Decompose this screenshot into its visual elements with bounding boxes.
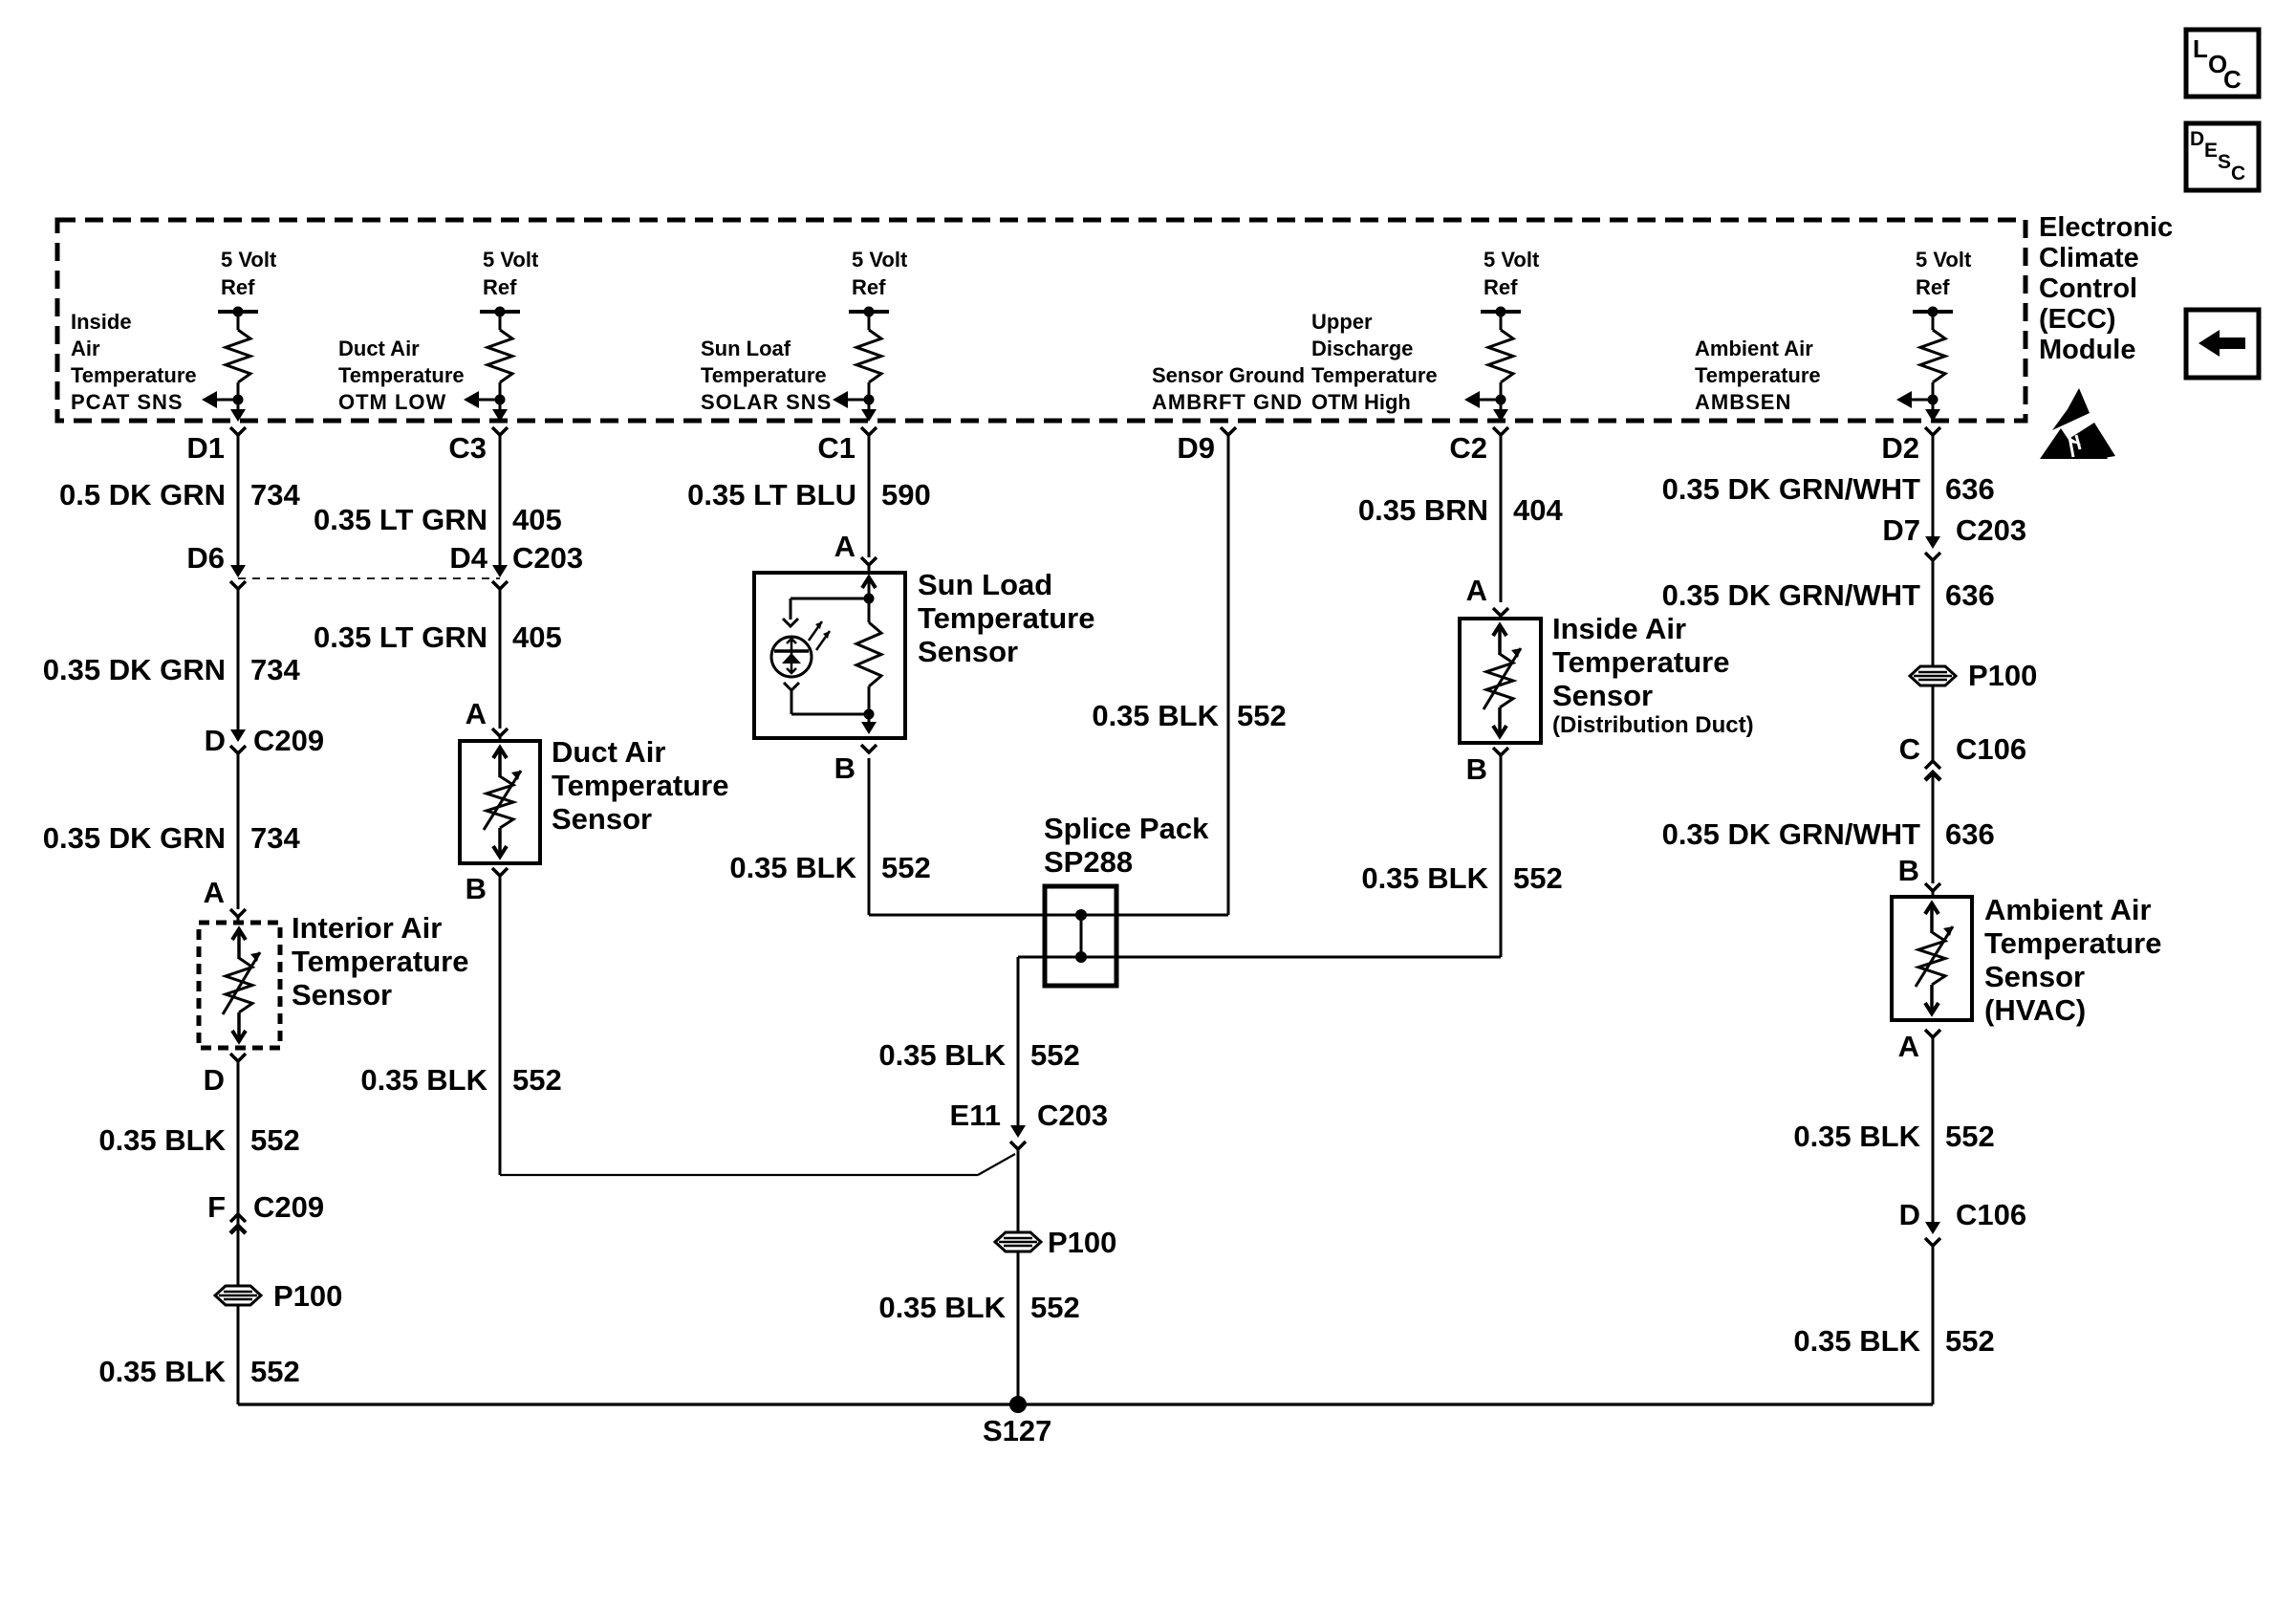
svg-text:0.35 BLK: 0.35 BLK — [1361, 861, 1488, 895]
svg-text:C: C — [2223, 65, 2242, 94]
svg-text:Sun Loaf: Sun Loaf — [701, 337, 791, 360]
svg-text:F: F — [207, 1190, 226, 1224]
svg-text:Upper: Upper — [1311, 310, 1373, 334]
svg-text:D1: D1 — [186, 431, 225, 465]
svg-text:Inside: Inside — [71, 310, 132, 334]
svg-text:552: 552 — [1513, 861, 1563, 895]
svg-text:0.35 DK GRN/WHT: 0.35 DK GRN/WHT — [1662, 578, 1920, 612]
svg-text:0.35 LT GRN: 0.35 LT GRN — [314, 503, 487, 536]
svg-text:E11: E11 — [950, 1099, 1001, 1132]
svg-text:0.35 BLK: 0.35 BLK — [1793, 1120, 1920, 1153]
svg-text:Sun Load: Sun Load — [918, 568, 1052, 601]
svg-text:590: 590 — [881, 478, 931, 511]
svg-text:SP288: SP288 — [1044, 845, 1133, 879]
svg-text:P100: P100 — [1968, 659, 2037, 692]
svg-text:SOLAR SNS: SOLAR SNS — [701, 390, 832, 414]
svg-text:(ECC): (ECC) — [2039, 304, 2116, 335]
svg-text:D4: D4 — [449, 541, 487, 575]
svg-text:Ambient Air: Ambient Air — [1984, 893, 2152, 926]
svg-text:0.35 BLK: 0.35 BLK — [878, 1038, 1006, 1072]
svg-text:Interior Air: Interior Air — [292, 911, 442, 945]
svg-text:C209: C209 — [253, 724, 324, 757]
svg-text:Ref: Ref — [1484, 275, 1518, 299]
svg-text:0.35 BLK: 0.35 BLK — [98, 1355, 226, 1388]
svg-text:0.35 DK GRN/WHT: 0.35 DK GRN/WHT — [1662, 817, 1920, 851]
svg-text:B: B — [1898, 854, 1919, 887]
svg-text:0.35 DK GRN: 0.35 DK GRN — [43, 821, 226, 855]
svg-text:Sensor: Sensor — [552, 802, 652, 836]
svg-text:0.35 BLK: 0.35 BLK — [1092, 699, 1219, 732]
svg-text:5 Volt: 5 Volt — [1484, 248, 1540, 272]
svg-text:C203: C203 — [512, 541, 583, 575]
svg-text:Temperature: Temperature — [701, 363, 827, 387]
svg-text:AMBSEN: AMBSEN — [1695, 390, 1791, 414]
svg-text:D9: D9 — [1177, 431, 1215, 465]
svg-text:P100: P100 — [273, 1279, 342, 1313]
svg-text:405: 405 — [512, 620, 562, 654]
svg-text:C203: C203 — [1037, 1099, 1108, 1132]
svg-text:Splice Pack: Splice Pack — [1044, 812, 1209, 845]
svg-text:Temperature: Temperature — [338, 363, 465, 387]
svg-text:552: 552 — [1945, 1324, 1995, 1358]
svg-text:Temperature: Temperature — [552, 769, 729, 802]
svg-text:S: S — [2218, 151, 2231, 173]
svg-text:404: 404 — [1513, 493, 1563, 527]
svg-text:Ref: Ref — [221, 275, 255, 299]
svg-text:B: B — [466, 872, 487, 905]
svg-text:A: A — [204, 876, 225, 909]
svg-text:Discharge: Discharge — [1311, 337, 1413, 360]
svg-text:C: C — [2231, 163, 2245, 185]
svg-text:636: 636 — [1945, 817, 1995, 851]
svg-text:Sensor Ground: Sensor Ground — [1152, 363, 1305, 387]
svg-text:D: D — [1899, 1198, 1920, 1231]
svg-text:P100: P100 — [1048, 1226, 1116, 1259]
svg-text:0.35 BLK: 0.35 BLK — [729, 851, 856, 884]
svg-text:D: D — [205, 724, 226, 757]
svg-text:0.35 BLK: 0.35 BLK — [360, 1063, 487, 1097]
svg-text:Climate: Climate — [2039, 243, 2139, 273]
svg-text:B: B — [1466, 752, 1487, 786]
svg-text:C106: C106 — [1956, 1198, 2026, 1231]
svg-text:552: 552 — [250, 1355, 300, 1388]
svg-text:S127: S127 — [983, 1414, 1051, 1447]
svg-text:A: A — [1466, 574, 1487, 607]
svg-text:Ambient Air: Ambient Air — [1695, 337, 1813, 360]
svg-text:552: 552 — [1945, 1120, 1995, 1153]
svg-text:552: 552 — [1237, 699, 1287, 732]
svg-text:734: 734 — [250, 478, 300, 511]
svg-text:0.5 DK GRN: 0.5 DK GRN — [59, 478, 226, 511]
svg-text:OTM LOW: OTM LOW — [338, 390, 446, 414]
svg-text:C2: C2 — [1449, 431, 1487, 465]
svg-text:A: A — [1898, 1030, 1919, 1063]
svg-text:552: 552 — [881, 851, 931, 884]
svg-text:0.35 DK GRN/WHT: 0.35 DK GRN/WHT — [1662, 472, 1920, 506]
svg-text:OTM High: OTM High — [1311, 390, 1411, 414]
svg-text:D2: D2 — [1881, 431, 1919, 465]
svg-text:C3: C3 — [448, 431, 487, 465]
svg-text:552: 552 — [1030, 1038, 1080, 1072]
svg-text:Temperature: Temperature — [1695, 363, 1821, 387]
svg-text:0.35 BRN: 0.35 BRN — [1358, 493, 1488, 527]
svg-text:B: B — [834, 751, 856, 785]
svg-text:0.35 BLK: 0.35 BLK — [878, 1291, 1006, 1324]
svg-text:734: 734 — [250, 821, 300, 855]
svg-text:Electronic: Electronic — [2039, 212, 2173, 243]
svg-text:636: 636 — [1945, 472, 1995, 506]
svg-text:Temperature: Temperature — [918, 601, 1095, 635]
svg-text:Temperature: Temperature — [1311, 363, 1438, 387]
svg-text:C209: C209 — [253, 1190, 324, 1224]
svg-text:D: D — [204, 1063, 225, 1097]
svg-text:AMBRFT GND: AMBRFT GND — [1152, 390, 1303, 414]
svg-text:552: 552 — [250, 1123, 300, 1157]
svg-text:Sensor: Sensor — [292, 978, 392, 1012]
svg-text:0.35 BLK: 0.35 BLK — [1793, 1324, 1920, 1358]
svg-text:Temperature: Temperature — [292, 945, 469, 978]
svg-text:Temperature: Temperature — [71, 363, 197, 387]
svg-text:0.35 BLK: 0.35 BLK — [98, 1123, 226, 1157]
svg-text:PCAT SNS: PCAT SNS — [71, 390, 184, 414]
svg-text:E: E — [2204, 140, 2218, 162]
svg-text:405: 405 — [512, 503, 562, 536]
svg-text:Duct Air: Duct Air — [338, 337, 420, 360]
svg-text:5 Volt: 5 Volt — [1916, 248, 1972, 272]
svg-text:Ref: Ref — [483, 275, 517, 299]
svg-text:C203: C203 — [1956, 513, 2026, 547]
svg-text:Sensor: Sensor — [918, 635, 1018, 668]
svg-text:0.35 LT GRN: 0.35 LT GRN — [314, 620, 487, 654]
svg-text:Sensor: Sensor — [1984, 960, 2085, 993]
svg-text:C: C — [1899, 732, 1920, 766]
svg-text:636: 636 — [1945, 578, 1995, 612]
svg-text:5 Volt: 5 Volt — [852, 248, 908, 272]
svg-text:Temperature: Temperature — [1984, 926, 2162, 960]
svg-text:D7: D7 — [1882, 513, 1920, 547]
svg-text:552: 552 — [1030, 1291, 1080, 1324]
svg-text:Module: Module — [2039, 335, 2136, 365]
svg-text:(Distribution Duct): (Distribution Duct) — [1552, 712, 1754, 738]
svg-text:0.35 DK GRN: 0.35 DK GRN — [43, 653, 226, 686]
svg-text:734: 734 — [250, 653, 300, 686]
svg-text:D: D — [2190, 128, 2204, 150]
svg-text:5 Volt: 5 Volt — [483, 248, 539, 272]
svg-text:Air: Air — [71, 337, 100, 360]
svg-text:(HVAC): (HVAC) — [1984, 993, 2086, 1027]
svg-text:Ref: Ref — [1916, 275, 1950, 299]
svg-text:C1: C1 — [817, 431, 856, 465]
svg-text:5 Volt: 5 Volt — [221, 248, 277, 272]
svg-text:Control: Control — [2039, 273, 2137, 304]
svg-text:0.35 LT BLU: 0.35 LT BLU — [687, 478, 856, 511]
svg-text:Inside Air: Inside Air — [1552, 612, 1686, 645]
svg-text:A: A — [466, 697, 487, 730]
svg-text:Temperature: Temperature — [1552, 645, 1730, 679]
svg-text:L: L — [2193, 34, 2208, 63]
svg-text:D6: D6 — [186, 541, 225, 575]
svg-text:C106: C106 — [1956, 732, 2026, 766]
svg-text:552: 552 — [512, 1063, 562, 1097]
svg-text:Duct Air: Duct Air — [552, 735, 665, 769]
svg-text:Ref: Ref — [852, 275, 886, 299]
svg-text:A: A — [834, 530, 856, 563]
svg-text:Sensor: Sensor — [1552, 679, 1653, 712]
